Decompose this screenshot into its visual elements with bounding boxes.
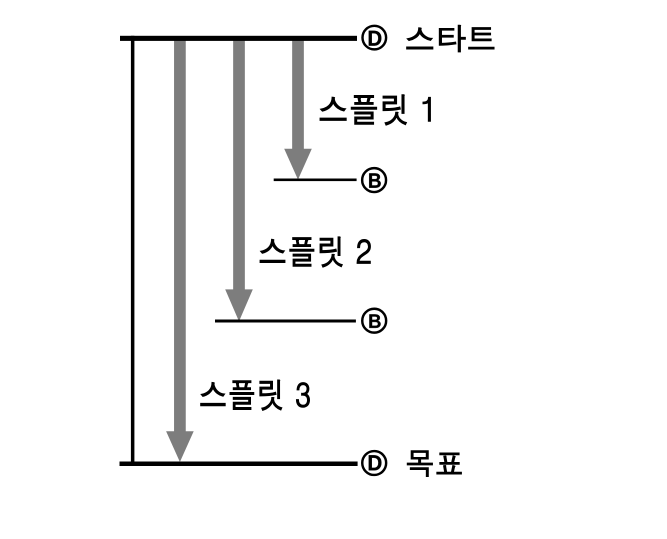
node B (split 1) circle bbox=[362, 168, 386, 192]
start line (top horizontal) bbox=[120, 36, 357, 41]
label "스플릿 2" bbox=[260, 237, 370, 267]
label "스타트" (start) bbox=[407, 25, 494, 52]
split 1 level line bbox=[274, 179, 357, 182]
split 3 arrow bbox=[166, 37, 194, 462]
goal line (bottom horizontal) bbox=[120, 462, 358, 467]
label "스플릿 3" bbox=[201, 380, 310, 410]
node B (split 2) circle bbox=[362, 309, 386, 333]
left vertical line bbox=[131, 36, 135, 466]
label "스플릿 1" bbox=[320, 95, 430, 125]
node D (goal) circle bbox=[362, 451, 386, 475]
split 1 arrow bbox=[284, 37, 312, 180]
label "목표" (goal) bbox=[407, 451, 461, 477]
split 2 arrow bbox=[225, 37, 253, 321]
split 2 level line bbox=[215, 320, 356, 323]
node D (start) circle bbox=[363, 26, 387, 50]
